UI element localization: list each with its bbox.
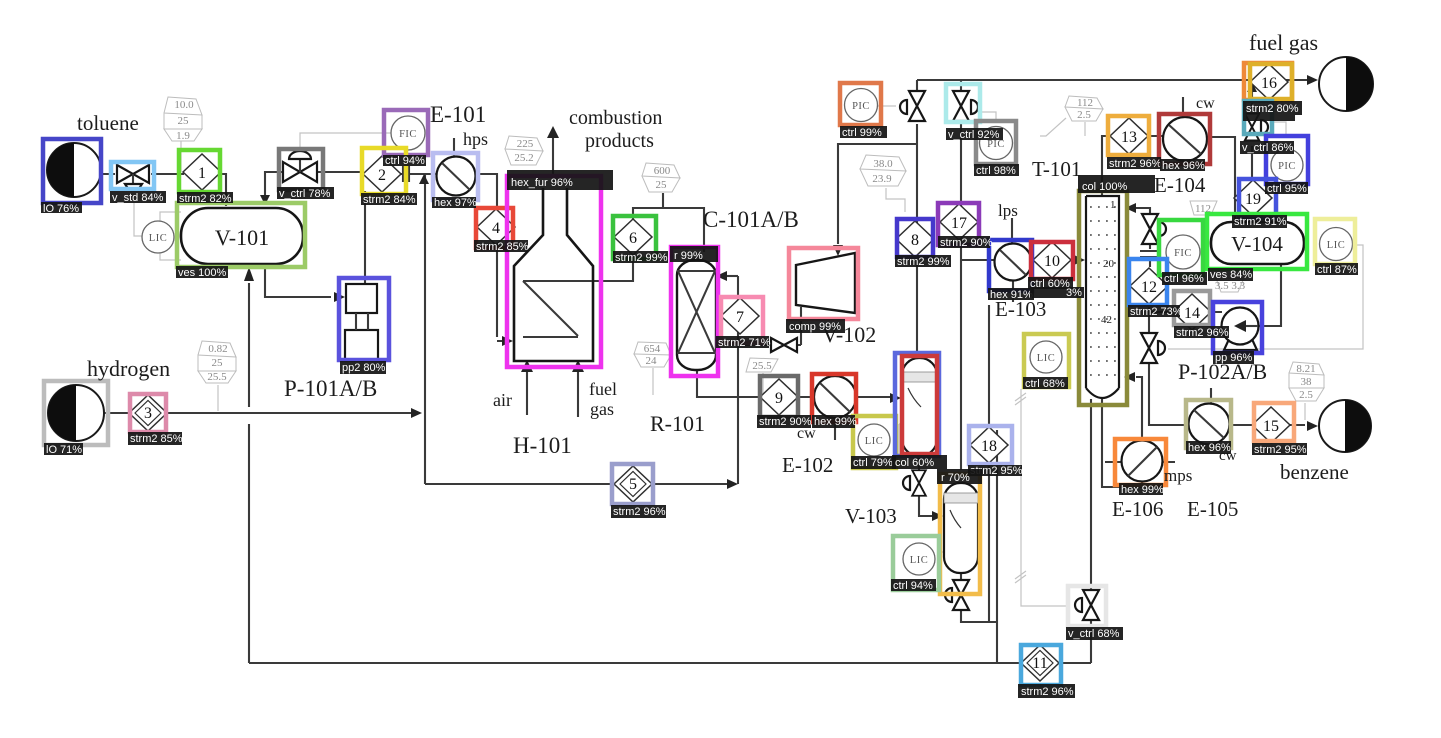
valve compressor discharge [771, 338, 797, 352]
svg-text:ctrl 99%: ctrl 99% [842, 127, 882, 139]
label r 70% [937, 469, 982, 484]
svg-text:hex 91%: hex 91% [990, 289, 1033, 301]
svg-text:v_ctrl 78%: v_ctrl 78% [279, 188, 331, 200]
wire flag2 stem [217, 385, 219, 411]
arrow into V-101 top [260, 195, 270, 205]
label ctrl 94% FIC [383, 155, 426, 167]
wire E-101 outlet down to H-101 [476, 174, 504, 341]
diamond 14 [1173, 294, 1211, 330]
svg-text:2.5: 2.5 [1299, 389, 1313, 401]
arrow into r70 vessel [932, 511, 943, 521]
bbox diamond 16 orange [1244, 63, 1292, 100]
svg-text:13: 13 [1121, 129, 1137, 146]
svg-text:strm2 96%: strm2 96% [1176, 327, 1229, 339]
bbox V-103 outer [895, 353, 939, 456]
wire control PIC98 to v_ctrl92 [981, 112, 996, 119]
wire control LIC68 to v_ctrl68 [1015, 389, 1067, 606]
svg-text:1.9: 1.9 [176, 130, 190, 142]
svg-text:strm2 99%: strm2 99% [897, 256, 950, 268]
wire LIC94 tap [941, 551, 944, 553]
bbox V-103 inner [902, 356, 937, 454]
svg-text:strm2 95%: strm2 95% [1254, 444, 1307, 456]
arrow into R-101 [716, 271, 727, 281]
wire flag5 stem [652, 368, 654, 395]
svg-text:E-101: E-101 [430, 102, 486, 127]
svg-text:9: 9 [775, 390, 783, 407]
arrow into T-101 reboiler return [1124, 372, 1135, 382]
wire E-103 bottom stub [1012, 281, 1014, 302]
svg-text:25.5: 25.5 [207, 371, 227, 383]
wire V-104 vapor to fuel header [1252, 92, 1253, 222]
label ves 100% [176, 266, 228, 279]
svg-text:42: 42 [1101, 314, 1112, 326]
label ctrl 98% [974, 164, 1019, 177]
bbox E-105 [1186, 400, 1231, 448]
compressor V-102 [796, 253, 855, 313]
svg-text:ctrl 94%: ctrl 94% [385, 155, 425, 167]
bbox E-101 [433, 153, 478, 200]
flag F4 600/25 [642, 163, 680, 192]
io hydrogen source circle [48, 385, 104, 441]
diamond 11 [1021, 645, 1059, 681]
valve below r70 [945, 580, 969, 610]
svg-text:strm2 84%: strm2 84% [363, 194, 416, 206]
wire diamond12 to valve to E-105 benzene line [1149, 305, 1305, 425]
svg-text:ctrl 98%: ctrl 98% [976, 165, 1016, 177]
diamond 17 [940, 204, 978, 240]
bbox diamond 4 [476, 208, 513, 248]
bbox FIC [384, 110, 428, 155]
label strm2 73% [1128, 305, 1183, 318]
svg-text:LIC: LIC [865, 436, 883, 447]
svg-text:strm2 90%: strm2 90% [940, 237, 993, 249]
svg-text:7: 7 [736, 309, 744, 326]
valve v_ctrl78 [283, 151, 317, 182]
svg-text:C-101A/B: C-101A/B [703, 207, 799, 232]
label strm2 96% dia11 [1018, 684, 1075, 698]
svg-text:fuel: fuel [589, 379, 617, 399]
svg-text:lO 71%: lO 71% [46, 444, 82, 456]
wire control v_std to LIC [134, 203, 142, 236]
bbox diamond 9 [760, 376, 798, 417]
svg-text:strm2 96%: strm2 96% [613, 506, 666, 518]
svg-text:FIC: FIC [1174, 248, 1192, 259]
bbox diamond 3 [130, 394, 166, 432]
label v_ctrl 86% [1240, 141, 1294, 154]
arrow into T-101 reflux [1125, 203, 1136, 213]
svg-text:ctrl 68%: ctrl 68% [1025, 378, 1065, 390]
bbox E-106 [1115, 439, 1166, 485]
wire H-101 chimney [552, 138, 554, 186]
bbox diamond 19 [1239, 179, 1276, 218]
label r 99% [670, 246, 718, 262]
arrow into P-101 [334, 292, 345, 302]
svg-text:V-103: V-103 [845, 504, 897, 528]
svg-text:hex 96%: hex 96% [1162, 160, 1205, 172]
wire flag10 stem [1304, 403, 1306, 420]
diamond 12 [1130, 268, 1168, 304]
svg-text:1: 1 [1110, 199, 1116, 211]
bbox LIC87 [1315, 219, 1355, 264]
label ves 84% [1208, 268, 1253, 281]
svg-text:654: 654 [644, 343, 661, 355]
label ctrl 68% [1023, 377, 1068, 390]
bbox E-102 [812, 374, 856, 422]
wire recycle vertical through diamond 7 [737, 276, 739, 484]
svg-text:strm2 85%: strm2 85% [130, 433, 183, 445]
flag F5 654/24 [634, 342, 671, 367]
wire V-102 suction from junction [838, 144, 917, 244]
flag F11 3.5/3.3 [1215, 278, 1246, 292]
svg-text:112: 112 [1077, 97, 1093, 109]
svg-text:cw: cw [1196, 95, 1215, 112]
svg-text:gas: gas [590, 399, 614, 419]
bbox H-101 hex_fur [507, 176, 601, 367]
wire air inlet [526, 372, 528, 415]
label ctrl 60% [1028, 277, 1073, 290]
label lO 76% [41, 202, 82, 215]
svg-text:air: air [493, 390, 512, 410]
bbox E-103 [989, 240, 1032, 291]
label ctrl 95% [1265, 182, 1308, 195]
vessel r70 stripper [944, 483, 978, 573]
valve v_std toluene [117, 165, 149, 190]
svg-text:6: 6 [629, 230, 637, 247]
label strm2 95% dia18 [968, 465, 1023, 477]
exchanger E-105 [1189, 404, 1230, 445]
svg-text:LIC: LIC [1327, 240, 1345, 251]
arrow fuel gas in [572, 360, 584, 372]
bbox V-102 [789, 248, 858, 319]
arrow junction up to main line [419, 174, 429, 184]
svg-text:LIC: LIC [1037, 353, 1055, 364]
flag F1 10.0/25/1.9 [164, 97, 202, 142]
bbox diamond 12 [1129, 259, 1167, 305]
svg-text:strm2 82%: strm2 82% [179, 193, 232, 205]
svg-text:5: 5 [629, 476, 637, 493]
label comp 99% [786, 319, 845, 333]
bbox LIC79 [853, 416, 896, 468]
bbox v_ctrl92 [946, 84, 980, 122]
wire R-101 quench inlet [726, 275, 738, 277]
svg-text:E-105: E-105 [1187, 497, 1238, 521]
svg-text:FIC: FIC [399, 129, 417, 140]
label strm2 82% [177, 192, 233, 205]
wire control PIC95 to v_ctrl86 [1274, 122, 1286, 134]
svg-text:15: 15 [1263, 418, 1279, 435]
svg-text:18: 18 [981, 438, 997, 455]
instrument PIC95 [1271, 149, 1303, 181]
svg-text:20: 20 [1103, 258, 1115, 270]
diamond 15 [1252, 407, 1290, 443]
arrow into V-102 [833, 245, 843, 256]
wire parallel return line [996, 430, 998, 663]
exchanger E-101 [437, 157, 476, 196]
svg-text:strm2 85%: strm2 85% [476, 241, 529, 253]
wire E-103 line to T-101 feed [961, 259, 1074, 261]
svg-text:1: 1 [198, 165, 206, 182]
diamond 16 [1250, 64, 1288, 100]
svg-text:strm2 80%: strm2 80% [1246, 103, 1299, 115]
bbox V-101 [177, 203, 305, 267]
label ctrl 79% [851, 456, 896, 469]
svg-text:H-101: H-101 [513, 433, 572, 458]
wire toluene feed to V-101 [101, 174, 226, 206]
exchanger E-102 [814, 376, 856, 418]
column T-101 [1086, 196, 1119, 398]
svg-text:lps: lps [998, 201, 1018, 220]
bbox diamond 1 [179, 150, 220, 192]
arrow hydrogen line [411, 408, 422, 418]
exchanger E-103 [995, 244, 1032, 281]
diamond 8 [896, 221, 934, 257]
label hex_fur 96% [507, 170, 613, 190]
wire LIC gauge bracket V-101 [160, 212, 181, 260]
instrument PIC98 [980, 127, 1013, 160]
wire lower feed header through diamond 5 [425, 483, 728, 485]
wire V-103 bottoms to r70 vessel [919, 456, 932, 516]
svg-text:ctrl 96%: ctrl 96% [1164, 273, 1204, 285]
label strm2 84% [361, 193, 417, 206]
arrow into benzene [1307, 421, 1318, 431]
bbox P-102 [1213, 302, 1262, 353]
svg-text:PIC: PIC [1278, 161, 1296, 172]
svg-text:benzene: benzene [1280, 460, 1349, 484]
bbox T-101 [1079, 191, 1127, 405]
label col 60% [892, 455, 947, 469]
svg-text:10.0: 10.0 [174, 99, 194, 111]
wire bottom recycle line [249, 662, 1091, 664]
label strm2 71% [716, 336, 771, 349]
svg-text:hydrogen: hydrogen [87, 356, 170, 381]
wire v_ctrl78 outlet to V-101 top [265, 172, 283, 196]
wire main line diamond2 to E-101 [398, 166, 437, 182]
furnace H-101 [514, 188, 593, 361]
wire fuel gas header [917, 80, 1307, 90]
svg-text:ctrl 79%: ctrl 79% [853, 457, 893, 469]
bbox v_ctrl78 [279, 149, 323, 190]
bbox PIC98 [976, 121, 1016, 164]
label strm2 80% [1243, 101, 1302, 115]
svg-text:3: 3 [144, 405, 152, 422]
wire T-101 bottoms to v_ctrl68 [1090, 399, 1092, 663]
label pp2 80% [340, 361, 386, 374]
instrument LIC79 [858, 424, 890, 456]
wire diamond 18 line [988, 305, 990, 622]
svg-text:24: 24 [646, 355, 658, 367]
arrow into T-101 feed [1074, 255, 1085, 265]
svg-text:hex 99%: hex 99% [1121, 484, 1164, 496]
label lO 71% [44, 443, 83, 456]
svg-text:ctrl 94%: ctrl 94% [893, 580, 933, 592]
bbox LIC68 [1024, 334, 1069, 387]
valve T-101 reflux [1142, 214, 1166, 244]
svg-text:v_ctrl 86%: v_ctrl 86% [1242, 142, 1294, 154]
svg-text:11: 11 [1032, 655, 1047, 672]
label hex 97% [432, 197, 477, 209]
bbox diamond 14 [1174, 291, 1210, 325]
svg-text:600: 600 [654, 165, 671, 177]
bbox diamond 17 [938, 203, 979, 245]
svg-text:strm2 99%: strm2 99% [615, 252, 668, 264]
svg-text:8: 8 [911, 232, 919, 249]
label v_std 84% [110, 191, 166, 204]
bbox hydrogen IO [44, 381, 108, 445]
label hidden v_ctrl sliver [1243, 115, 1295, 121]
vessel V-104 [1211, 222, 1304, 264]
wire hydrogen feed [104, 412, 412, 414]
wire T-101 overhead to E-104 to V-104 [1102, 136, 1235, 222]
svg-text:strm2 90%: strm2 90% [759, 416, 812, 428]
svg-text:combustion: combustion [569, 107, 662, 129]
label strm2 99% dia8 [895, 255, 951, 268]
arrow into H-101 [502, 336, 513, 346]
vessel V-101 [181, 208, 303, 264]
wire V-103 overhead through diamond8 to valve1 [916, 124, 918, 358]
bbox diamond 8 [897, 219, 933, 257]
bbox diamond 13 [1108, 116, 1149, 155]
flag F10 8.21/38/2.5 [1289, 362, 1324, 401]
instrument FIC96 [1166, 235, 1200, 269]
bbox diamond 11 [1021, 645, 1061, 685]
exchanger E-106 [1122, 441, 1163, 482]
label hex 91% [988, 288, 1034, 301]
label hex 96% E104 [1160, 159, 1205, 172]
svg-text:PIC: PIC [852, 101, 870, 112]
instrument FIC top [391, 116, 425, 150]
wire LIC79 taps [899, 424, 902, 456]
label col 100% [1078, 175, 1155, 193]
svg-text:r 70%: r 70% [941, 472, 970, 484]
svg-text:V-101: V-101 [215, 225, 269, 250]
svg-text:fuel gas: fuel gas [1249, 30, 1318, 55]
diamond 7 [721, 298, 759, 334]
wire hydrogen junction vertical [424, 184, 426, 484]
svg-text:E-102: E-102 [782, 453, 833, 477]
svg-text:LIC: LIC [910, 555, 928, 566]
label strm2 96% dia13 [1107, 157, 1162, 170]
bbox diamond 2 [362, 148, 406, 194]
label strm2 91% [1232, 215, 1287, 228]
svg-text:comp 99%: comp 99% [789, 321, 841, 333]
wire flag600 stem [662, 193, 664, 208]
flag F7 38.0/23.9 [860, 155, 906, 186]
wire R-101 outlet to E-102 to V-103 [697, 370, 892, 397]
svg-text:hps: hps [463, 129, 488, 149]
instrument LIC87 [1320, 228, 1353, 261]
diamond 9 [760, 379, 798, 415]
valve v_ctrl92 [953, 91, 978, 121]
label ctrl 99% [840, 126, 887, 139]
svg-text:strm2 71%: strm2 71% [718, 337, 771, 349]
wire r70 bottoms [961, 573, 997, 622]
arrow into fuel gas [1307, 75, 1318, 85]
svg-text:v_ctrl 92%: v_ctrl 92% [948, 129, 1000, 141]
wire flag6 stem [762, 373, 764, 395]
bbox diamond 6 [613, 216, 656, 259]
arrow fuel branch up [1247, 82, 1257, 92]
pump P-102 [1222, 308, 1259, 351]
wire control PIC99 to valve [878, 105, 896, 107]
bbox diamond 5 [612, 464, 653, 504]
svg-text:pp2 80%: pp2 80% [342, 362, 386, 374]
svg-text:P-101A/B: P-101A/B [284, 376, 377, 401]
svg-text:10: 10 [1044, 253, 1060, 270]
io fuel gas sink circle [1319, 57, 1373, 111]
wire V-104 outlet to P-102 [1246, 264, 1281, 326]
wire E-102 bottom stub [834, 418, 836, 440]
svg-text:strm2 96%: strm2 96% [1109, 158, 1162, 170]
svg-text:strm2 96%: strm2 96% [1021, 686, 1074, 698]
wire control LIC87 loop to valve [1168, 245, 1363, 349]
instrument PIC99 [845, 89, 878, 122]
arrow feed header end [727, 479, 738, 489]
svg-text:V-104: V-104 [1231, 232, 1283, 256]
bbox V-104 [1207, 214, 1307, 269]
bbox v_std valve [111, 162, 154, 189]
label strm2 90% dia9 [757, 415, 812, 428]
wire flag1 stem [180, 141, 182, 172]
pump P-101A/B [345, 284, 378, 360]
flag F2 0.82/25/25.5 [198, 341, 236, 383]
bbox v_ctrl86 [1244, 101, 1272, 134]
svg-text:r 99%: r 99% [674, 250, 703, 262]
bbox E-104 [1159, 114, 1210, 164]
svg-text:col 100%: col 100% [1082, 181, 1127, 193]
svg-text:v_std 84%: v_std 84% [112, 192, 164, 204]
wire diamond2 down to P-101 [364, 191, 366, 284]
svg-text:toluene: toluene [77, 111, 139, 135]
label hex 99% E106 [1119, 483, 1164, 496]
svg-text:25: 25 [178, 115, 190, 127]
svg-text:hex_fur 96%: hex_fur 96% [511, 177, 573, 189]
svg-text:products: products [585, 130, 654, 152]
instrument LIC V-101 [142, 221, 174, 253]
svg-text:lO 76%: lO 76% [43, 203, 79, 215]
svg-text:14: 14 [1184, 305, 1200, 322]
flag F8 112/2.5 [1065, 96, 1103, 121]
diamond 18 [970, 427, 1008, 463]
svg-text:0.82: 0.82 [208, 343, 227, 355]
svg-text:ves 100%: ves 100% [178, 267, 227, 279]
svg-text:16: 16 [1261, 75, 1277, 92]
bbox r70 [940, 474, 980, 594]
svg-text:23.9: 23.9 [872, 173, 892, 185]
label ctrl 96% FIC96 [1162, 272, 1207, 285]
io benzene sink circle [1319, 400, 1371, 452]
svg-text:25: 25 [656, 179, 668, 191]
svg-text:hex 99%: hex 99% [814, 416, 857, 428]
svg-text:25.5: 25.5 [752, 360, 772, 372]
reactor R-101 [677, 260, 716, 370]
wire cw stub E-104 [1182, 97, 1184, 118]
label v_ctrl 78% [277, 187, 334, 200]
svg-text:4: 4 [492, 220, 500, 237]
instrument LIC94 [903, 543, 935, 575]
label ctrl 94% LIC94 [891, 579, 936, 592]
label v_ctrl 68% [1066, 627, 1123, 640]
wire flange marks [1140, 251, 1159, 257]
svg-text:3%: 3% [1066, 287, 1082, 299]
valve below diamond 12 [1141, 333, 1165, 363]
label strm2 85% dia4 [474, 240, 529, 253]
svg-text:8.21: 8.21 [1296, 363, 1315, 375]
label pp 96% [1213, 351, 1254, 364]
svg-text:T-101: T-101 [1032, 157, 1081, 181]
svg-text:col 60%: col 60% [895, 457, 934, 469]
svg-text:E-104: E-104 [1154, 173, 1206, 197]
label strm2 99% dia6 [613, 251, 668, 264]
